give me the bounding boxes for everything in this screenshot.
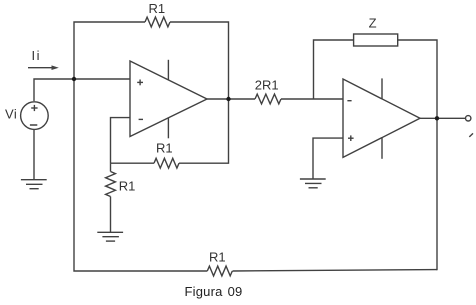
wire: U1 output to resistor 2R1 [207, 98, 255, 100]
resistor R1 (top feedback) [145, 17, 170, 27]
op-amp U1 negative supply pin [167, 118, 169, 139]
resistor R1 (bottom feedback) [207, 266, 232, 276]
wire: U2 output column down to bottom feedback [436, 118, 438, 270]
ground (below R1) [97, 232, 123, 241]
svg-text:Ii: Ii [32, 48, 42, 63]
wire: feedback junction to resistor R1 (U1 feedback) [111, 162, 155, 164]
svg-text:R1: R1 [156, 140, 173, 155]
svg-text:Z: Z [369, 16, 377, 31]
svg-text:Figura 09: Figura 09 [185, 284, 243, 299]
resistor R1 (to ground) [106, 172, 116, 197]
op-amp U1 positive supply pin [167, 60, 169, 80]
wire: U1 inverting input to feedback junction [111, 118, 131, 164]
op-amp U2 [343, 78, 420, 158]
stray mark near output terminal [469, 133, 473, 137]
impedance Z [354, 34, 398, 46]
wire: impedance Z to U2 output column [398, 40, 437, 118]
resistor 2R1 [255, 94, 281, 104]
op-amp U2 negative supply pin [381, 138, 383, 159]
ground (U2 non-inverting input) [300, 179, 326, 188]
wire: node A column down and along bottom to resistor R1 [74, 79, 207, 271]
wire: feedback resistor to U1 output column [179, 99, 229, 163]
wire: resistor to ground [110, 197, 112, 233]
svg-text:R1: R1 [209, 249, 226, 264]
resistor R1 (U1 feedback) [154, 158, 179, 168]
svg-text:R1: R1 [149, 1, 166, 16]
wire: feedback junction down to resistor R1 (to ground) [110, 163, 112, 171]
wire: U2 output to terminal [420, 117, 466, 119]
node: U1 output junction dot [226, 97, 230, 101]
output terminal [466, 116, 471, 121]
node A junction dot [72, 77, 76, 81]
node: U2 output junction dot [435, 116, 439, 120]
op-amp U2 positive supply pin [381, 78, 383, 99]
wire: Vi top to node A and U1 + input [34, 79, 130, 101]
current arrow Ii [28, 65, 59, 70]
wire: U2 non-inverting input to ground [313, 138, 343, 179]
source Vi [21, 102, 49, 130]
op-amp U1 [130, 60, 207, 139]
svg-text:Vi: Vi [5, 107, 17, 122]
svg-text:R1: R1 [119, 179, 136, 194]
wire: top feedback resistor to U1 output column [170, 22, 229, 99]
wire: bottom resistor to U2 output column [233, 270, 438, 271]
svg-text:2R1: 2R1 [255, 77, 279, 92]
wire: node A up to top feedback resistor [74, 22, 145, 79]
wire: 2R1 to U2 inverting input [281, 98, 343, 100]
wire: Vi bottom to ground [33, 129, 35, 179]
wire: U2 inverting node up to impedance Z [314, 40, 354, 99]
ground (below Vi) [21, 180, 47, 189]
